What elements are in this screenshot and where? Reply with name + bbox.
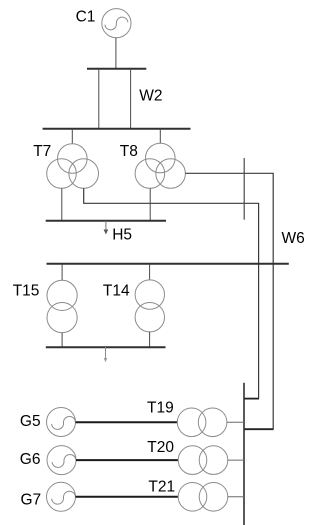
transformer T20 (two-winding) — [178, 446, 228, 475]
wire W2 circuit 2 — [130, 69, 132, 129]
wire G7 to T21 — [76, 496, 179, 498]
wire bus to T8 — [159, 129, 161, 144]
svg-text:T21: T21 — [148, 479, 175, 496]
wire W6 circuit 1 to bus jog — [244, 398, 259, 400]
generator C1 — [102, 9, 131, 38]
transformer T7 (three-winding) — [47, 144, 99, 189]
svg-text:G6: G6 — [20, 451, 41, 468]
svg-text:C1: C1 — [76, 9, 96, 26]
load arrow at H5 — [104, 221, 109, 235]
wire T21 to bus — [228, 496, 244, 498]
wire bus to T7 — [71, 129, 73, 144]
lower mid bus — [46, 346, 166, 348]
transformer T21 (two-winding) — [178, 483, 228, 512]
svg-text:H5: H5 — [112, 226, 132, 243]
svg-text:T19: T19 — [147, 400, 174, 417]
wire C1 to bus W2-top — [115, 38, 117, 69]
wire T7 LV to bus H5 — [61, 188, 63, 220]
svg-text:W2: W2 — [139, 87, 162, 104]
svg-text:T8: T8 — [120, 143, 138, 160]
transformer T15 (two-winding) — [47, 280, 77, 332]
wire bus to T14 — [149, 264, 151, 280]
bus node (short vertical bar right) — [243, 158, 245, 220]
wire T7 tertiary to bottom bus (W6 circuit 1) — [84, 188, 259, 398]
wire T14 to lower bar — [149, 332, 151, 347]
wire T8 LV to bus H5 — [149, 188, 151, 220]
transformer T8 (three-winding) — [135, 143, 185, 188]
bus W6-top (long horizontal) — [47, 263, 289, 265]
wire T15 to lower bar — [61, 333, 63, 347]
svg-text:T14: T14 — [103, 283, 130, 300]
wire T19 to bus — [227, 421, 244, 423]
generator G7 — [47, 482, 76, 511]
bus above W2 — [87, 68, 146, 70]
wire T8 tertiary to bottom bus (W6 circuit 2) — [185, 173, 273, 429]
svg-text:G5: G5 — [20, 413, 41, 430]
wire W6 circuit 2 to bus jog — [244, 428, 274, 430]
wire G6 to T20 — [76, 459, 178, 461]
transformer T14 (two-winding) — [135, 280, 164, 332]
bus H5 — [46, 220, 166, 222]
load arrow mid — [104, 347, 108, 362]
generator G5 — [47, 408, 76, 437]
svg-text:T20: T20 — [147, 439, 174, 456]
wire T20 to bus — [228, 459, 244, 461]
wire G5 to T19 — [76, 421, 178, 423]
wire bus to T15 — [61, 264, 63, 281]
transformer T19 (two-winding) — [177, 408, 227, 437]
svg-text:T15: T15 — [13, 283, 40, 300]
svg-text:W6: W6 — [282, 230, 305, 247]
bus below W2 — [43, 128, 191, 130]
generator G6 — [47, 446, 76, 475]
bottom right vertical bus — [243, 383, 245, 525]
svg-text:T7: T7 — [33, 143, 51, 160]
wire W2 circuit 1 — [98, 69, 100, 129]
svg-text:G7: G7 — [21, 491, 42, 508]
